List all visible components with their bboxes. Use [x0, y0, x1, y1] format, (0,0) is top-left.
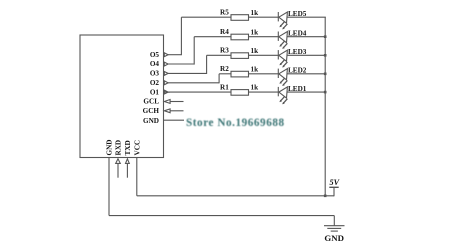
wire GND vertical left	[108, 158, 110, 216]
svg-text:R1: R1	[220, 84, 229, 92]
svg-text:1k: 1k	[251, 47, 259, 55]
resistor R5 label	[220, 9, 229, 17]
LED LED2 label	[288, 67, 307, 75]
resistor R5 value 1k	[251, 9, 259, 17]
svg-text:R2: R2	[220, 65, 229, 73]
ground symbol	[324, 226, 345, 231]
LED LED3 triangle	[279, 50, 288, 61]
wire row 5 right	[287, 16, 326, 18]
junction rail row 3	[324, 54, 327, 57]
wire pin O5 stub	[168, 54, 181, 56]
pin O1 label	[150, 88, 160, 96]
resistor R3 label	[220, 47, 229, 55]
pin GCH arrow	[164, 109, 183, 113]
resistor R3	[231, 53, 249, 59]
svg-text:GND: GND	[143, 117, 159, 125]
junction rail 5V	[324, 195, 327, 198]
svg-text:RXD: RXD	[115, 140, 123, 156]
pin RXD arrow	[116, 159, 121, 178]
LED LED4 label	[288, 29, 307, 37]
power 5V bar	[329, 186, 338, 188]
wire row 4 left	[194, 36, 231, 38]
resistor R2 value 1k	[251, 65, 259, 73]
svg-text:R3: R3	[220, 47, 229, 55]
wire GND drop	[333, 216, 335, 226]
svg-text:Store No.19669688: Store No.19669688	[186, 117, 285, 129]
LED LED1 light arrows	[279, 97, 287, 105]
svg-text:VCC: VCC	[134, 140, 142, 156]
resistor R1 label	[220, 84, 229, 92]
wire pin GND stub	[164, 119, 185, 121]
svg-text:O4: O4	[150, 60, 160, 68]
wire VCC horizontal	[137, 195, 334, 197]
wire pin O2 stub	[168, 82, 219, 84]
LED LED4 cathode bar	[277, 32, 279, 41]
svg-text:GCL: GCL	[143, 98, 159, 106]
LED LED3 light arrows	[279, 60, 287, 68]
svg-text:O5: O5	[150, 51, 160, 59]
svg-text:5V: 5V	[330, 178, 341, 187]
pin O4 label	[150, 60, 160, 68]
IC U1 box	[80, 35, 164, 158]
wire right rail	[324, 17, 326, 196]
LED LED1 label	[288, 85, 307, 93]
LED LED5 triangle	[279, 12, 288, 23]
pin GCH label	[143, 107, 160, 115]
resistor R4 label	[220, 28, 229, 36]
svg-text:1k: 1k	[251, 9, 259, 17]
svg-text:GCH: GCH	[143, 107, 160, 115]
LED LED2 light arrows	[279, 78, 287, 86]
wire GND horizontal bottom	[109, 215, 334, 217]
LED LED1 cathode bar	[277, 87, 279, 96]
wire row 2 right	[287, 73, 326, 75]
resistor R4	[231, 34, 249, 40]
wire pin O1 stub	[168, 91, 170, 93]
wire O2 riser	[218, 74, 220, 84]
svg-text:GND: GND	[324, 233, 344, 243]
power 5V label	[330, 178, 341, 187]
svg-text:R5: R5	[220, 9, 229, 17]
pin O2 label	[150, 79, 160, 87]
svg-text:1k: 1k	[251, 65, 259, 73]
junction rail row 4	[324, 35, 327, 38]
svg-text:TXD: TXD	[124, 140, 132, 155]
wire O3 riser	[206, 55, 208, 74]
LED LED2 triangle	[279, 69, 288, 80]
svg-text:O1: O1	[150, 88, 160, 96]
LED LED1 triangle	[279, 87, 288, 98]
svg-text:O3: O3	[150, 70, 160, 78]
svg-text:1k: 1k	[251, 84, 259, 92]
LED LED5 label	[288, 10, 307, 18]
wire row 1 right	[287, 91, 326, 93]
pin O1 symbol	[164, 90, 168, 94]
wire row 3 middle	[249, 54, 279, 56]
wire row 4 right	[287, 36, 326, 38]
pin O5 symbol	[164, 53, 168, 57]
wire row 1 left	[164, 91, 232, 93]
resistor R1 value 1k	[251, 84, 259, 92]
resistor R3 value 1k	[251, 47, 259, 55]
pin RXD (bottom) label	[115, 140, 123, 156]
wire pin O4 stub	[168, 63, 194, 65]
wire VCC vertical	[136, 158, 138, 196]
pin O5 label	[150, 51, 160, 59]
pin O4 symbol	[164, 62, 168, 66]
svg-text:R4: R4	[220, 28, 229, 36]
wire row 5 middle	[249, 16, 279, 18]
junction rail row 2	[324, 73, 327, 76]
pin TXD arrow	[126, 159, 130, 178]
pin O2 symbol	[164, 81, 168, 85]
resistor R2 label	[220, 65, 229, 73]
wire pin O3 stub	[168, 72, 207, 74]
wire row 2 left	[219, 73, 231, 75]
pin O3 label	[150, 70, 160, 78]
wire row 3 right	[287, 54, 326, 56]
resistor R2	[231, 71, 249, 77]
svg-text:1k: 1k	[251, 28, 259, 36]
pin VCC (bottom) label	[134, 140, 142, 156]
pin GCL arrow	[164, 100, 183, 104]
wire row 1 middle	[249, 91, 279, 93]
wire O5 riser	[180, 17, 182, 55]
wire row 5 left	[181, 16, 231, 18]
svg-text:O2: O2	[150, 79, 160, 87]
LED LED2 cathode bar	[277, 69, 279, 78]
wire row 3 left	[207, 54, 231, 56]
svg-text:GND: GND	[106, 140, 114, 156]
LED LED5 cathode bar	[277, 12, 279, 21]
pin GND (right) label	[143, 117, 159, 125]
LED LED3 label	[288, 48, 307, 56]
wire O4 riser	[193, 37, 195, 65]
wire row 2 middle	[249, 73, 279, 75]
LED LED5 light arrows	[279, 22, 287, 30]
resistor R4 value 1k	[251, 28, 259, 36]
pin GND (bottom) label	[106, 140, 114, 156]
LED LED3 cathode bar	[277, 50, 279, 59]
LED LED4 triangle	[279, 32, 288, 43]
junction rail row 1	[324, 91, 327, 94]
pin TXD (bottom) label	[124, 140, 132, 155]
resistor R5	[231, 15, 249, 21]
pin O3 symbol	[164, 72, 168, 76]
wire row 4 middle	[249, 36, 279, 38]
ground GND label	[324, 233, 344, 243]
wire 5V stub	[333, 187, 335, 196]
pin GCL label	[143, 98, 159, 106]
watermark store number	[186, 117, 285, 129]
resistor R1	[231, 90, 249, 96]
LED LED4 light arrows	[279, 41, 287, 49]
